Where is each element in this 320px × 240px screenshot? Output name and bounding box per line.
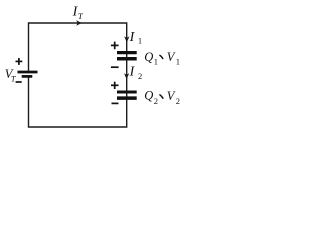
- svg-text:I: I: [129, 65, 136, 80]
- svg-text:V: V: [167, 89, 176, 103]
- svg-text:T: T: [78, 11, 84, 21]
- svg-text:2: 2: [138, 71, 142, 81]
- svg-text:V: V: [167, 50, 176, 64]
- svg-text:Q: Q: [144, 89, 153, 103]
- svg-text:2: 2: [176, 96, 180, 106]
- svg-text:1: 1: [176, 57, 180, 67]
- svg-text:T: T: [11, 75, 16, 84]
- svg-text:1: 1: [138, 36, 142, 46]
- svg-text:2: 2: [154, 96, 158, 106]
- svg-text:I: I: [129, 30, 136, 45]
- svg-text:1: 1: [154, 56, 158, 66]
- svg-text:Q: Q: [144, 50, 153, 64]
